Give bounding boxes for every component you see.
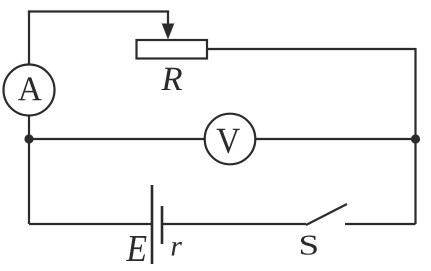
label V [217,129,240,153]
node: right junction dot [411,134,420,143]
wire: from rheostat right terminal to top-right corner [207,48,416,50]
label S [301,236,317,255]
wire: voltmeter branch, right part [255,138,415,140]
wire: bottom segment from switch to bottom-right corner [345,223,416,225]
wire: right vertical from top-right corner to bottom-right corner [414,48,416,224]
label E [126,236,147,261]
ammeter U-A circle [4,65,55,116]
wire: bottom left segment to battery [29,223,152,225]
wire: left vertical, segment from ammeter down to bottom-left corner [28,116,30,225]
switch S blade (open) [306,204,347,225]
battery short plate [161,206,164,244]
wire: top horizontal from left corner to rheostat wiper [28,10,169,12]
label r [172,242,182,256]
wiper arrowhead pointing down onto rheostat [162,24,175,40]
wire: wiper stem down from top wire [167,11,169,28]
label A [18,77,42,100]
wire: left vertical, top segment (top-left corner down to ammeter) [28,11,30,65]
battery long plate [151,185,154,264]
node: left junction dot [24,134,33,143]
voltmeter U-V circle [205,114,256,165]
resistor (rheostat) R body [137,40,208,59]
label R [161,68,182,90]
wire: bottom segment from battery to switch [162,223,306,225]
wire: voltmeter branch, left part [29,138,205,140]
